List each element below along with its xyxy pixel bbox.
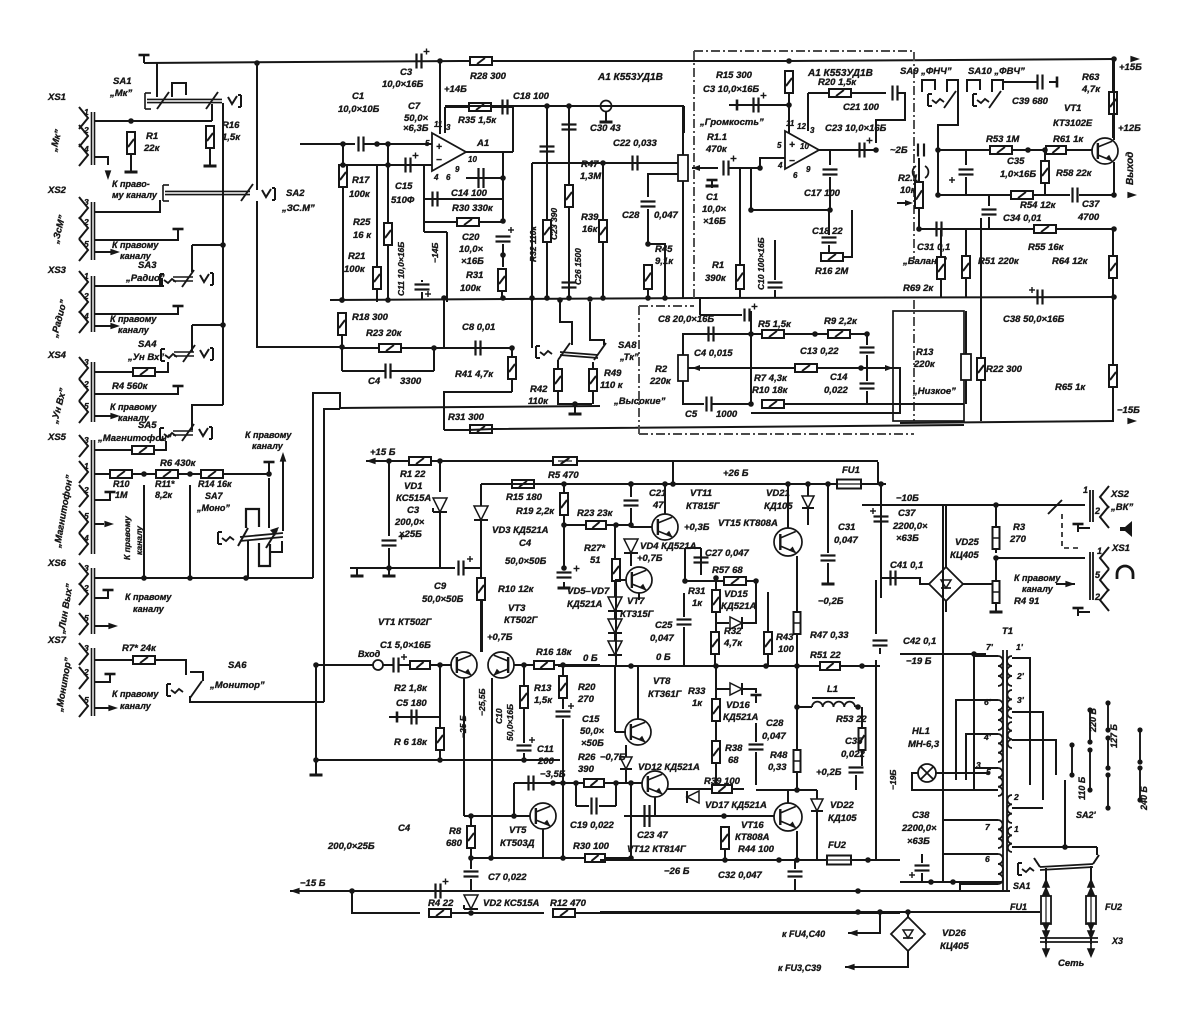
svg-text:10к: 10к	[900, 185, 917, 196]
wire R27 dn	[615, 581, 617, 666]
resistor R1 390k	[736, 265, 744, 289]
wire VT11 base	[631, 526, 652, 528]
capacitor C19 col	[540, 145, 555, 147]
transistor VT12 KT814G	[642, 771, 668, 797]
diode VD12 KD521A	[620, 757, 632, 769]
junction R2.1 bot	[916, 226, 922, 232]
junction SA8 gnd	[572, 401, 578, 407]
junction fb a	[500, 175, 506, 181]
svg-text:510Ф: 510Ф	[391, 195, 415, 206]
svg-text:XS1: XS1	[47, 92, 66, 103]
wire R1390 dn	[739, 289, 741, 298]
svg-text:С21: С21	[649, 488, 666, 499]
wire VD22 row	[797, 789, 817, 791]
switch SA1 mains slide	[1040, 864, 1093, 867]
svg-text:+: +	[436, 142, 442, 153]
svg-text:С35: С35	[845, 736, 863, 747]
wire R35 row	[445, 106, 513, 108]
svg-text:С14 100: С14 100	[451, 188, 488, 199]
svg-text:1,5к: 1,5к	[222, 132, 241, 143]
svg-text:R2 1,8к: R2 1,8к	[394, 683, 428, 694]
selector link 127 c	[1107, 775, 1109, 808]
connector XS7 pin 5	[79, 695, 88, 717]
wire R1 bottom	[130, 154, 132, 166]
junction R53 left	[935, 147, 941, 153]
svg-text:КЦ405: КЦ405	[940, 941, 969, 952]
arrow output	[1127, 192, 1137, 199]
wire C8 row tone	[700, 314, 742, 316]
fuse FU1 mains arrows top	[1042, 878, 1050, 888]
svg-text:R23 20к: R23 20к	[366, 328, 403, 339]
switch SA8 latch	[535, 346, 537, 358]
wire C22 row	[532, 162, 678, 164]
boundary bass pot box	[893, 311, 964, 421]
svg-text:7': 7'	[986, 642, 994, 652]
svg-text:SА1: SА1	[1013, 881, 1031, 891]
svg-text:3: 3	[84, 563, 89, 573]
junction mid a	[544, 103, 550, 109]
capacitor C4 3300	[384, 364, 386, 379]
wire C13 col	[866, 334, 868, 345]
svg-text:R4 560к: R4 560к	[112, 381, 149, 392]
svg-text:XS6: XS6	[47, 558, 67, 569]
junction fb b	[500, 218, 506, 224]
wire XS5-1 row	[95, 473, 110, 475]
svg-text:К правому: К правому	[112, 240, 159, 250]
svg-text:R43: R43	[776, 632, 794, 643]
svg-text:3300: 3300	[400, 376, 422, 387]
ground SA8	[574, 408, 576, 414]
ground C31	[827, 578, 829, 584]
wire x424 col	[423, 165, 425, 232]
terminal C5 left	[389, 716, 397, 718]
junction pa rail b	[437, 757, 443, 763]
wire R25 col low	[387, 245, 389, 302]
wire R5 row	[751, 333, 867, 335]
switch SA4 slide	[174, 351, 194, 353]
junction C4 node	[431, 345, 437, 351]
svg-text:С13 0,22: С13 0,22	[800, 346, 839, 357]
wire XS6-5	[95, 625, 115, 627]
svg-text:+0,7Б: +0,7Б	[637, 553, 663, 564]
connector XS2 pin 2 speaker	[1100, 506, 1109, 528]
resistor R10 12k	[477, 578, 485, 600]
svg-text:С4: С4	[368, 376, 381, 387]
switch SA10 contact	[989, 91, 1001, 108]
wire R13 stub	[523, 665, 525, 686]
resistor R9 2.2k	[828, 330, 850, 338]
svg-text:С23 47: С23 47	[637, 830, 668, 841]
wire XS1-1 to SA1	[95, 120, 212, 122]
svg-text:SA9 „ФНЧ”: SA9 „ФНЧ”	[900, 66, 952, 77]
wire node mid	[750, 334, 752, 404]
terminal input circle	[373, 660, 383, 670]
wire VD1 dn	[439, 512, 441, 568]
wire C14 row	[466, 177, 503, 179]
resistor R23 23k pa	[586, 521, 606, 529]
junction ground rail 8	[645, 295, 651, 301]
svg-text:VD16: VD16	[726, 700, 750, 711]
resistor R53 1M	[990, 146, 1012, 154]
svg-text:каналу: каналу	[133, 604, 165, 614]
svg-text:2200,0×: 2200,0×	[892, 521, 928, 532]
wire K FU3	[845, 966, 893, 968]
wire R16 bottom	[209, 148, 211, 160]
wire C35 col2	[965, 150, 967, 165]
wire up to stub	[268, 466, 270, 474]
wire R22 up	[980, 298, 982, 358]
svg-text:3: 3	[84, 435, 89, 445]
wire R16-node	[554, 664, 600, 666]
junction VD26 top	[905, 909, 911, 915]
junction C9 left	[386, 565, 392, 571]
wire bridge right	[963, 583, 996, 585]
wire C28-R45	[647, 209, 649, 244]
svg-text:1: 1	[1083, 485, 1088, 495]
junction input left	[313, 662, 319, 668]
wire VT15 collector	[787, 484, 789, 528]
ground shield	[605, 116, 607, 122]
ground pa bottom	[315, 769, 317, 775]
svg-text:R54 12к: R54 12к	[1020, 200, 1057, 211]
wire XS6-3 long	[95, 577, 313, 579]
connector XS5 pin 4	[79, 533, 88, 555]
junction C35 bot	[935, 192, 941, 198]
junction C21 bot	[628, 522, 634, 528]
junction 26 b	[670, 481, 676, 487]
svg-text:VT1: VT1	[1064, 103, 1081, 114]
svg-text:R5 1,5к: R5 1,5к	[758, 319, 792, 330]
svg-text:R47 0,33: R47 0,33	[810, 630, 849, 641]
wire C14 dn	[866, 391, 868, 404]
wire K FU4	[848, 912, 880, 933]
op-amp A1 K553UD1V	[432, 133, 466, 171]
wiper arrow balance	[905, 200, 913, 206]
junction rail b a	[855, 888, 861, 894]
wire R65 dn	[1112, 387, 1114, 421]
junction e row b	[488, 855, 494, 861]
junction L1 l	[794, 704, 800, 710]
capacitor C35 1.0x16	[959, 168, 974, 170]
terminal stub top left	[143, 55, 145, 63]
terminal VD16	[755, 695, 757, 703]
svg-text:Т1: Т1	[1002, 626, 1013, 637]
junction R1 top	[128, 118, 134, 124]
resistor C23 dummy	[565, 185, 573, 207]
svg-text:R9 2,2к: R9 2,2к	[824, 316, 858, 327]
connector XS4 pin 3	[79, 357, 88, 379]
switch SA7 contact right	[266, 530, 277, 548]
wire R4 up	[995, 558, 997, 581]
wire SA8 up a	[560, 302, 572, 345]
resistor R58 22k	[1041, 161, 1049, 183]
svg-text:R64 12к: R64 12к	[1052, 256, 1089, 267]
wire VD26 bottom	[893, 951, 908, 967]
junction R31 top pa	[713, 575, 719, 581]
wire R13-C10	[523, 708, 525, 743]
svg-text:„Высокие”: „Высокие”	[613, 396, 666, 407]
junction XS6 a	[141, 575, 147, 581]
junction -26 b	[776, 857, 782, 863]
wire SA10 to R53 row	[938, 112, 958, 150]
capacitor C37 2200x63	[874, 515, 889, 517]
capacitor C19 0.022	[590, 798, 592, 815]
junction R11-R14	[187, 471, 193, 477]
junction C3 top	[386, 458, 392, 464]
svg-text:SA4: SA4	[138, 339, 157, 350]
wire C7 col	[470, 858, 472, 869]
svg-text:110к: 110к	[528, 396, 549, 407]
svg-text:ХS1: ХS1	[1111, 543, 1130, 554]
wire R53-R61	[1012, 149, 1046, 151]
svg-text:VD25: VD25	[955, 537, 979, 548]
wire C3 lead	[737, 104, 789, 106]
wire VD22 up	[816, 790, 818, 799]
junction KFU4	[877, 909, 883, 915]
svg-text:−: −	[789, 156, 795, 167]
wiper arrow treble	[692, 365, 700, 371]
svg-text:R22 300: R22 300	[986, 364, 1023, 375]
svg-text:9: 9	[806, 165, 811, 174]
wire XS2 pin bus	[91, 202, 93, 260]
svg-text:2: 2	[83, 217, 89, 227]
wire VT8 base col	[614, 666, 616, 732]
resistor R4 inner	[993, 591, 1000, 593]
wire winding 7w	[943, 819, 998, 821]
svg-text:R55 16к: R55 16к	[1028, 242, 1065, 253]
svg-text:Сеть: Сеть	[1058, 958, 1085, 969]
wire VT7 base row	[615, 579, 626, 581]
wire bridge top	[945, 505, 947, 567]
svg-text:С38: С38	[912, 810, 930, 821]
wire SA1 left drop	[156, 63, 158, 97]
wire C21 dn	[630, 508, 632, 525]
wire R12 right	[575, 912, 900, 914]
wire shield stem	[605, 112, 607, 118]
plus C1pa	[401, 656, 407, 658]
wire XS4 pin bus	[91, 362, 93, 422]
wire psu left col	[880, 484, 882, 598]
capacitor C8 0.01	[474, 341, 476, 356]
svg-text:R4 91: R4 91	[1014, 596, 1039, 607]
wire R31-R32	[715, 612, 717, 632]
svg-text:С8 0,01: С8 0,01	[462, 322, 495, 333]
svg-text:−25 Б: −25 Б	[458, 715, 468, 738]
junction R7 right	[858, 365, 864, 371]
fuse inner R5	[558, 460, 572, 462]
wire col -19V	[875, 660, 877, 860]
svg-text:2: 2	[1094, 592, 1100, 602]
junction VT5 base2	[511, 813, 517, 819]
wire VD16 l	[716, 688, 730, 690]
wire XS3-4	[95, 325, 116, 327]
resistor R33 1k	[712, 699, 720, 721]
svg-text:SA5: SA5	[138, 420, 157, 431]
winding 7'	[998, 656, 1003, 686]
svg-text:SА2': SА2'	[1076, 810, 1097, 820]
switch SA7 slide	[240, 533, 283, 537]
svg-text:КД521А: КД521А	[567, 599, 603, 610]
connector XS1 phone pin 1	[1100, 547, 1109, 569]
junction SA1 rail	[254, 60, 260, 66]
svg-text:5: 5	[84, 695, 89, 705]
svg-text:51: 51	[590, 555, 601, 566]
svg-text:КТ361Г: КТ361Г	[648, 689, 683, 700]
wire R15 row r	[534, 483, 564, 485]
junction 0V node	[560, 662, 566, 668]
boundary tone block dashed	[639, 51, 914, 434]
svg-text:50,0×50Б: 50,0×50Б	[505, 556, 547, 567]
wire SA7 in col	[268, 478, 270, 528]
wire R41 to long run	[444, 392, 512, 430]
wire R11-R14	[178, 473, 201, 475]
wire +26V rail b	[481, 483, 878, 485]
wire C4 drop	[433, 348, 435, 371]
switch SA5 latch	[159, 428, 161, 440]
wire R35 left drop	[444, 107, 446, 133]
wire XS5-3 to resistor	[95, 449, 132, 451]
switch SA1 contact a	[157, 92, 169, 109]
wire treble top	[683, 334, 751, 355]
junction -10V a	[993, 502, 999, 508]
svg-text:С4: С4	[519, 538, 532, 549]
wire R53 row	[938, 149, 989, 151]
svg-text:5: 5	[84, 401, 89, 411]
wire R20 row	[808, 92, 886, 94]
svg-text:VD22: VD22	[830, 800, 854, 811]
wire R32 dn	[714, 654, 716, 666]
svg-text:12: 12	[797, 122, 806, 131]
wire R7 row	[751, 367, 795, 369]
capacitor C38 50x16	[1036, 290, 1038, 305]
svg-text:10: 10	[800, 142, 809, 151]
wire output row	[938, 194, 1070, 196]
svg-text:R28 300: R28 300	[470, 71, 507, 82]
svg-text:XS3: XS3	[47, 265, 67, 276]
svg-text:каналу: каналу	[1022, 584, 1054, 594]
wire C38 dn	[921, 873, 923, 882]
svg-text:220к: 220к	[913, 359, 936, 370]
wire C13-C14	[866, 355, 868, 381]
resistor R5 470	[553, 457, 577, 465]
svg-text:каналу: каналу	[252, 441, 284, 451]
svg-text:22к: 22к	[143, 143, 161, 154]
svg-text:2': 2'	[1016, 671, 1025, 681]
diode VD16b	[730, 683, 742, 695]
zener VD2 KS515A	[464, 895, 478, 909]
resistor R4 560k	[133, 368, 155, 376]
wire XS6-2 stub	[95, 594, 108, 598]
capacitor C28 0.047	[641, 200, 656, 202]
svg-text:R21: R21	[348, 251, 365, 262]
svg-text:50,0×16Б: 50,0×16Б	[505, 704, 515, 741]
svg-text:200: 200	[537, 756, 555, 767]
svg-text:VТ8: VТ8	[653, 676, 671, 687]
svg-text:2: 2	[83, 125, 89, 135]
potentiometer R2.1 10k	[915, 182, 923, 208]
switch SA3 indicator	[200, 274, 209, 282]
junction SA2 wire	[339, 344, 345, 350]
wire C39 lead	[1003, 81, 1037, 83]
svg-text:R23 23к: R23 23к	[577, 508, 614, 519]
junction mid b	[566, 103, 572, 109]
capacitor C32 0.047	[788, 870, 803, 872]
transformer core	[1002, 650, 1004, 890]
resistor R31 300	[470, 425, 492, 433]
svg-text:100: 100	[778, 644, 795, 655]
svg-text:6: 6	[793, 171, 798, 180]
svg-text:VD17 КД521А: VD17 КД521А	[705, 800, 767, 811]
svg-text:R16: R16	[222, 120, 240, 131]
connector XS5 pin 5	[79, 511, 88, 533]
transistor VT15 KT808A	[774, 528, 802, 556]
wire C20-R31	[502, 244, 504, 267]
wire to minus input	[760, 158, 785, 168]
wire C32 dn	[794, 879, 796, 891]
zener VD1 KS515A	[433, 498, 447, 512]
wire SA6 to bus	[190, 672, 203, 681]
arrow -15V rail end	[1127, 418, 1137, 425]
selector link 220 b	[1089, 750, 1091, 790]
svg-text:50,0×: 50,0×	[580, 726, 604, 737]
capacitor C22 0.033	[631, 156, 633, 171]
svg-text:4: 4	[83, 533, 89, 543]
wire C4 left	[342, 370, 385, 372]
wire treble bottom	[683, 381, 704, 404]
wire minus input	[343, 164, 432, 166]
svg-text:КТ502Г: КТ502Г	[504, 615, 539, 626]
svg-text:2: 2	[1013, 792, 1019, 802]
fuse FU2	[827, 856, 851, 865]
svg-text:16 к: 16 к	[353, 230, 372, 241]
svg-text:390к: 390к	[705, 273, 727, 284]
switch speaker contact	[1048, 500, 1062, 514]
wire C17 down	[829, 177, 831, 210]
resistor R63 4.7k	[1109, 92, 1117, 114]
wire XS2-2 lead	[1078, 527, 1090, 529]
wire C5 row	[397, 716, 440, 718]
junction R25 top	[385, 141, 391, 147]
wire C35 col3	[965, 177, 967, 195]
junction 0V c	[794, 663, 800, 669]
wire R53 dn	[861, 750, 863, 766]
svg-text:С19 0,022: С19 0,022	[570, 820, 615, 831]
wire R21 col	[376, 165, 378, 267]
svg-text:127 Б: 127 Б	[1109, 723, 1119, 748]
wire col x974	[973, 654, 975, 790]
wire bridge right dn	[995, 558, 997, 584]
wire R39 r	[732, 788, 744, 790]
resistor R10 1M	[110, 470, 132, 478]
svg-text:„Ун Вх”: „Ун Вх”	[127, 352, 164, 363]
switch SA8 slide	[560, 352, 598, 355]
svg-text:С28: С28	[622, 210, 640, 221]
capacitor C3 200x25	[382, 539, 397, 541]
resistor R39 100 pa	[712, 785, 732, 793]
svg-text:110 к: 110 к	[600, 380, 624, 391]
svg-text:VD15: VD15	[724, 589, 748, 600]
svg-text:R11*: R11*	[155, 479, 175, 489]
junction ground rail 5	[544, 295, 550, 301]
switch SA7 contact left	[238, 528, 248, 546]
svg-text:VТ11: VТ11	[690, 488, 712, 499]
wire C21 col	[630, 484, 632, 497]
wire C35 dn	[855, 775, 857, 790]
resistor R2 1.8k	[410, 661, 430, 669]
connector XS1 phone pin 2	[1100, 589, 1109, 611]
svg-text:3: 3	[446, 123, 451, 132]
capacitor C11 200	[527, 776, 529, 791]
